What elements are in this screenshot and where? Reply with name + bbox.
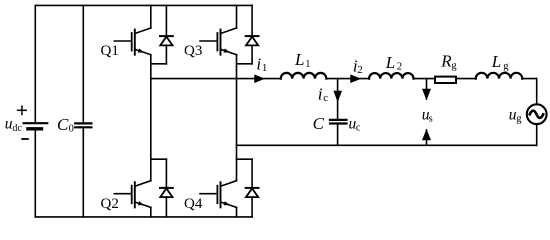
svg-text:Q2: Q2 [101,196,119,212]
svg-text:g: g [451,61,457,72]
svg-text:c: c [356,122,361,133]
svg-text:dc: dc [12,123,22,134]
svg-text:c: c [323,92,328,104]
svg-text:L: L [491,52,501,71]
svg-text:i: i [318,84,323,103]
svg-text:2: 2 [397,61,402,72]
svg-text:C: C [313,114,325,133]
svg-text:Q3: Q3 [184,43,202,59]
svg-text:Q4: Q4 [184,196,203,212]
svg-text:g: g [516,114,522,125]
svg-text:i: i [256,54,261,73]
svg-text:s: s [429,113,433,124]
svg-text:0: 0 [69,123,74,134]
svg-text:L: L [385,53,395,72]
svg-text:Q1: Q1 [101,43,119,59]
svg-text:1: 1 [262,62,268,74]
svg-text:2: 2 [357,64,363,76]
svg-text:C: C [57,115,69,134]
svg-text:L: L [294,50,304,69]
svg-text:1: 1 [305,59,310,70]
svg-text:g: g [503,61,509,72]
